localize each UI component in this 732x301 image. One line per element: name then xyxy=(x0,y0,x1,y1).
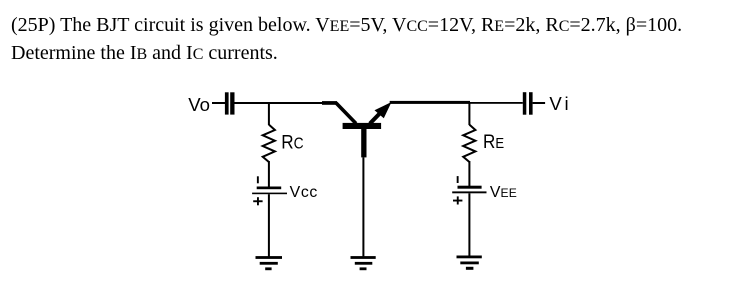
label RC xyxy=(281,131,304,153)
svg-text:Vcc: Vcc xyxy=(290,184,318,201)
wire node B down to RE xyxy=(468,103,470,125)
wire node A down to RC xyxy=(268,103,270,125)
node Vi label xyxy=(549,93,571,114)
svg-text:VEE: VEE xyxy=(490,184,517,201)
resistor RE xyxy=(463,125,475,162)
problem statement text xyxy=(11,12,726,69)
wire C2 to Vi xyxy=(533,102,546,104)
ground (left) xyxy=(256,256,283,270)
svg-text:RC: RC xyxy=(281,131,304,153)
ground (right) xyxy=(457,256,482,270)
wire RC to battery Vcc xyxy=(268,161,270,187)
wire Q1 emitter to node B xyxy=(390,101,470,104)
resistor RC xyxy=(263,125,275,162)
transistor Q1 xyxy=(322,101,392,157)
svg-text:Vo: Vo xyxy=(188,94,210,115)
wire VEE to ground xyxy=(468,193,470,256)
node Vo label xyxy=(188,94,210,115)
wire Vcc to ground xyxy=(268,194,270,256)
ground (middle) xyxy=(351,256,376,270)
label VEE xyxy=(490,184,517,201)
battery VEE xyxy=(452,176,486,204)
wire node B to capacitor C2 xyxy=(470,102,523,104)
wire C1 to node A and to Q1 collector xyxy=(235,102,323,104)
capacitor C2 xyxy=(523,92,533,115)
capacitor C1 xyxy=(225,92,235,114)
battery Vcc xyxy=(252,176,287,205)
wire RE to battery VEE xyxy=(468,161,470,186)
label Vcc xyxy=(290,184,318,201)
svg-text:Vi: Vi xyxy=(549,93,571,114)
wire Vo to capacitor C1 xyxy=(212,102,226,104)
label RE xyxy=(483,130,504,152)
wire Q1 base to ground xyxy=(362,157,364,256)
svg-text:RE: RE xyxy=(483,130,504,152)
